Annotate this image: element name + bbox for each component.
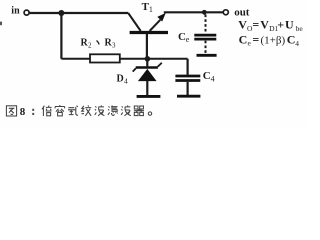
svg-text:4: 4	[124, 77, 128, 86]
svg-text:V: V	[238, 18, 247, 32]
svg-text:D: D	[117, 74, 124, 85]
wire junction A down	[60, 13, 62, 59]
svg-text:C: C	[178, 31, 186, 43]
svg-text:4: 4	[295, 39, 299, 48]
wire scan mark left edge	[0, 22, 2, 26]
ground Ce	[197, 54, 217, 57]
node junction A dot	[58, 10, 64, 16]
svg-text:U: U	[285, 18, 294, 32]
formula Ce	[239, 33, 300, 49]
transistor T1 base lead	[146, 34, 148, 59]
transistor T1 label	[142, 1, 153, 14]
svg-text:4: 4	[211, 74, 215, 83]
svg-text:2: 2	[88, 42, 92, 50]
wire base node to D4	[146, 59, 148, 67]
resistor R2 R3 label	[81, 38, 117, 50]
node base junction dot	[145, 56, 151, 62]
caption period	[148, 112, 151, 115]
output terminal	[223, 10, 228, 15]
svg-text:V: V	[260, 18, 269, 32]
svg-text:C: C	[287, 33, 296, 47]
svg-text:in: in	[11, 6, 20, 17]
svg-text:be: be	[296, 24, 304, 33]
capacitor Ce dashed lead top	[205, 15, 207, 34]
diode D4 label	[117, 74, 129, 86]
capacitor Ce dashed lead bottom	[205, 41, 207, 54]
svg-text:=: =	[252, 33, 259, 47]
resistor R2/R3 body	[90, 54, 120, 62]
svg-text:e: e	[248, 39, 252, 48]
ground D4	[137, 95, 161, 98]
capacitor C4 bottom lead	[187, 82, 189, 95]
diode D4 zener cathode bar	[136, 66, 158, 69]
node output junction dot	[202, 10, 207, 15]
ground C4	[177, 95, 200, 98]
capacitor Ce plates	[194, 34, 216, 37]
svg-text:=: =	[252, 18, 259, 32]
svg-text:8: 8	[20, 106, 26, 118]
diode D4 bottom lead	[146, 81, 148, 95]
diode D4 anode triangle	[138, 69, 157, 81]
capacitor C4 plates	[175, 75, 200, 78]
wire input to collector	[30, 12, 129, 14]
svg-text:e: e	[186, 35, 190, 44]
capacitor C4 label	[203, 70, 215, 83]
svg-text:+: +	[277, 18, 284, 32]
wire to resistor	[61, 58, 90, 60]
wire emitter to output	[164, 11, 224, 13]
wire resistor to base node	[120, 58, 188, 60]
svg-text:C: C	[203, 70, 211, 82]
transistor T1 base bar	[130, 31, 168, 34]
svg-text:3: 3	[112, 42, 116, 50]
wire base node to C4	[187, 59, 189, 75]
caption figure 8 text (drawn glyphs)	[6, 106, 16, 116]
svg-text:C: C	[239, 33, 248, 47]
transistor T1 collector lead	[128, 13, 141, 31]
svg-text:1: 1	[149, 5, 153, 14]
capacitor Ce label	[178, 31, 190, 44]
input terminal	[24, 10, 29, 15]
formula Vo	[238, 18, 303, 33]
svg-text:(1+β): (1+β)	[261, 35, 286, 47]
transistor T1 emitter lead with arrow	[150, 20, 161, 31]
